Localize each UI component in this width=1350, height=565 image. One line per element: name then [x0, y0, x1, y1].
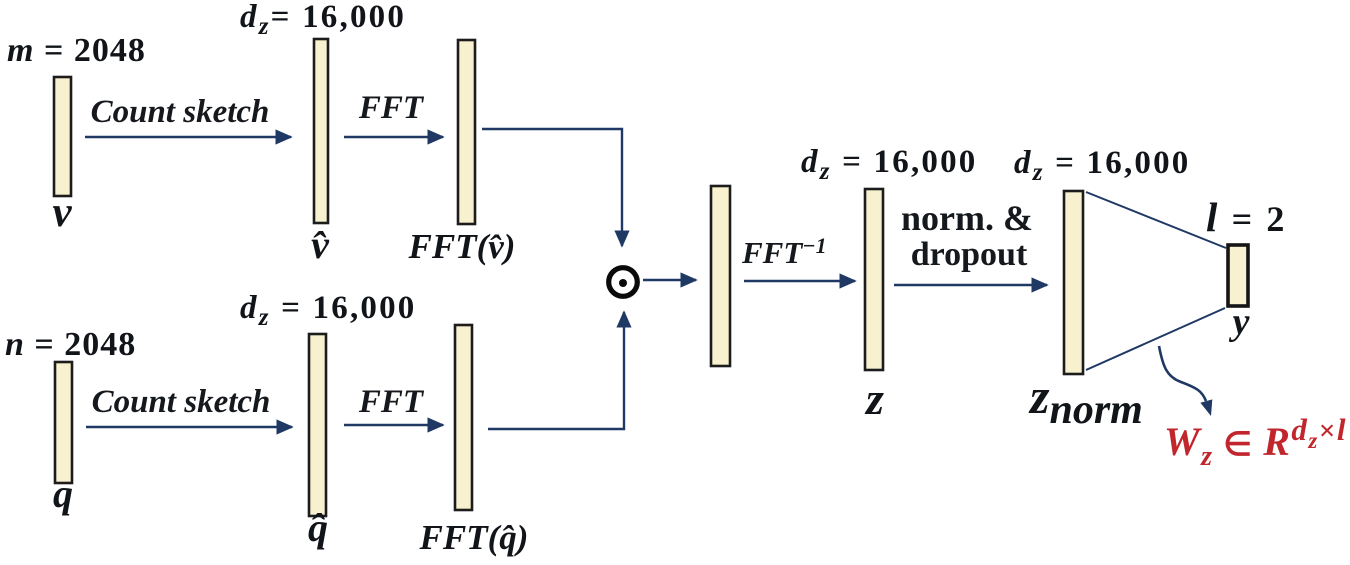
svg-text:dropout: dropout: [911, 236, 1028, 273]
bar v-hat: [314, 39, 328, 223]
svg-text:n = 2048: n = 2048: [5, 326, 136, 363]
arrow FFT inverse: [744, 280, 855, 282]
arrow count-sketch bottom: [86, 426, 292, 428]
arrow FFT bottom: [344, 424, 443, 426]
bar y: [1228, 245, 1248, 306]
svg-text:v: v: [52, 189, 72, 236]
elementwise product circle: [609, 268, 638, 297]
svg-text:m = 2048: m = 2048: [7, 32, 146, 69]
bar product: [711, 186, 730, 366]
bar v: [54, 77, 71, 196]
arrow count-sketch top: [85, 136, 291, 138]
bar q-hat: [309, 334, 326, 516]
svg-text:FFT: FFT: [358, 90, 425, 126]
svg-text:FFT: FFT: [358, 384, 425, 420]
bar z_norm: [1064, 191, 1083, 374]
svg-text:v̂: v̂: [311, 222, 330, 267]
bar q: [55, 362, 72, 483]
curved arrow to Wz: [1159, 346, 1206, 401]
fc line bottom: [1086, 308, 1225, 370]
svg-text:Count sketch: Count sketch: [91, 94, 270, 130]
svg-text:q: q: [53, 471, 73, 516]
svg-text:FFT(v̂): FFT(v̂): [408, 227, 516, 266]
bar FFT(v-hat): [458, 40, 475, 224]
svg-text:Count sketch: Count sketch: [92, 384, 271, 420]
bar FFT(q-hat): [455, 325, 472, 510]
svg-text:z: z: [864, 373, 884, 424]
wire FFT(v-hat) to product: [482, 129, 622, 246]
svg-text:norm. &: norm. &: [901, 198, 1033, 238]
arrow FFT top: [344, 136, 443, 138]
fc line top: [1086, 192, 1226, 248]
svg-text:q̂: q̂: [308, 505, 328, 550]
svg-text:y: y: [1229, 301, 1250, 343]
arrow product to bar: [643, 279, 696, 281]
svg-text:l = 2: l = 2: [1206, 194, 1287, 240]
wire FFT(q-hat) to product: [488, 312, 624, 429]
bar z: [865, 189, 883, 370]
arrow norm dropout: [894, 284, 1047, 286]
svg-text:FFT(q̂): FFT(q̂): [419, 518, 529, 557]
